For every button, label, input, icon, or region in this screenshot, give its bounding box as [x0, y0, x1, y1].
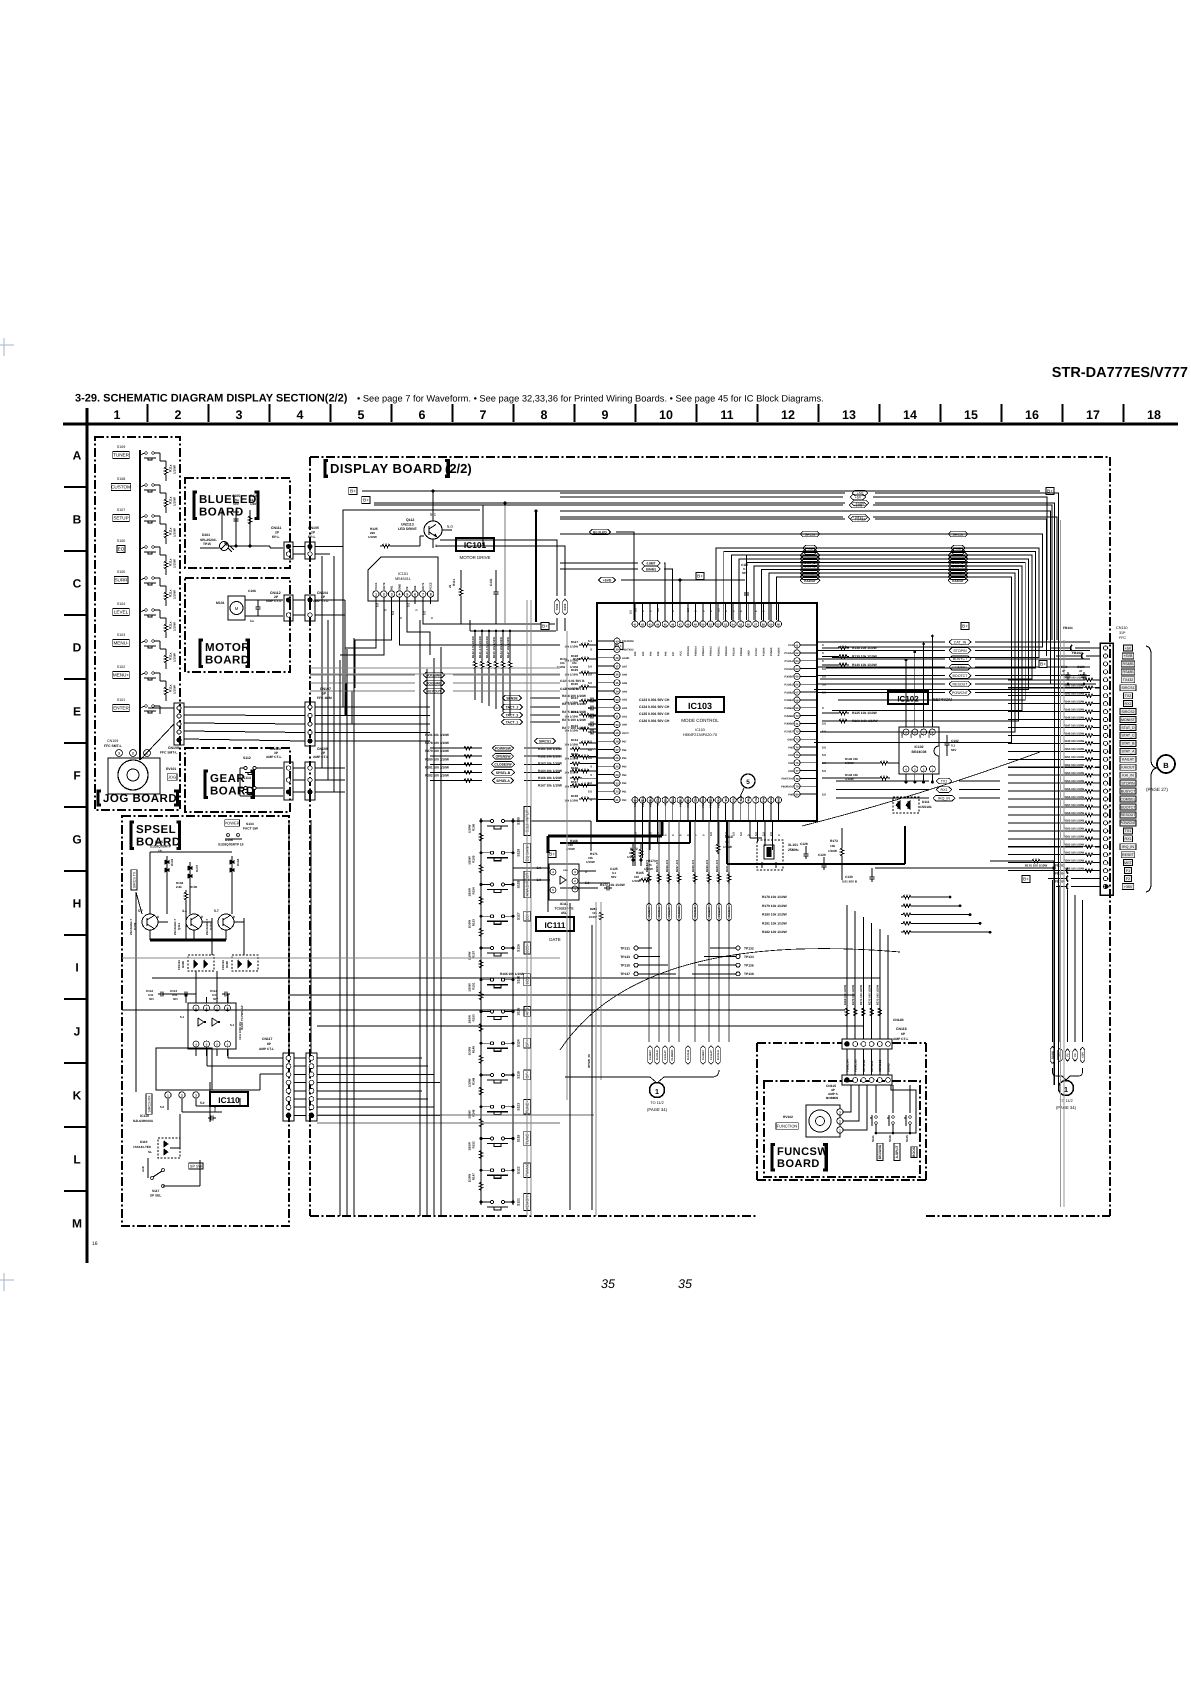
svg-text:R180 10k 1/10W: R180 10k 1/10W: [762, 913, 788, 917]
MOTOR board outline: [185, 578, 290, 672]
svg-text:2.2k: 2.2k: [176, 885, 182, 889]
svg-text:D111: D111: [922, 800, 930, 804]
svg-text:0: 0: [585, 870, 587, 874]
svg-text:1/10W: 1/10W: [468, 1110, 472, 1119]
svg-text:KAILAT: KAILAT: [1122, 758, 1135, 762]
svg-text:5.0: 5.0: [822, 745, 826, 749]
svg-text:S134: S134: [246, 822, 254, 826]
svg-text:C128: C128: [800, 842, 808, 846]
BLUELED board outline: [185, 478, 290, 568]
svg-text:7: 7: [422, 593, 424, 597]
svg-text:FL3BAT: FL3BAT: [649, 1050, 652, 1060]
net label B+ f: [1046, 488, 1054, 495]
svg-text:65: 65: [796, 676, 799, 679]
svg-text:R144 10k 1/10W: R144 10k 1/10W: [499, 637, 503, 658]
svg-text:17: 17: [1086, 408, 1100, 422]
svg-text:S124: S124: [517, 1039, 521, 1047]
svg-text:IN2: IN2: [413, 585, 417, 590]
svg-text:R242 100 1/10W: R242 100 1/10W: [1064, 685, 1085, 688]
svg-text:E: E: [73, 705, 81, 719]
svg-text:5.0: 5.0: [585, 881, 590, 885]
svg-text:TP136: TP136: [744, 964, 754, 968]
svg-text:CN11B: CN11B: [893, 1018, 904, 1022]
svg-text:P45: P45: [657, 651, 660, 656]
svg-text:BOBBIN: BOBBIN: [826, 1096, 839, 1100]
svg-text:RS485: RS485: [1123, 670, 1134, 674]
svg-text:66: 66: [796, 684, 799, 687]
callout circle B: [1157, 755, 1175, 773]
svg-text:B+: B+: [697, 574, 703, 579]
svg-text:S112: S112: [243, 756, 251, 760]
wire CN112-CN104: [293, 599, 305, 601]
svg-text:7: 7: [480, 408, 487, 422]
svg-text:+5VB: +5VB: [1124, 654, 1133, 658]
svg-text:1/10W: 1/10W: [468, 888, 472, 897]
svg-text:R274 100 1/10W: R274 100 1/10W: [562, 702, 586, 706]
svg-text:J: J: [74, 1025, 81, 1039]
svg-text:R268 100 1/10W: R268 100 1/10W: [562, 694, 586, 698]
svg-text:D105: D105: [155, 840, 163, 844]
svg-text:FL3CLK: FL3CLK: [656, 1050, 659, 1060]
svg-text:14: 14: [903, 408, 917, 422]
svg-text:IN1: IN1: [390, 585, 394, 590]
svg-text:P50/TXD0: P50/TXD0: [702, 795, 705, 807]
svg-text:P37/B7: P37/B7: [784, 731, 793, 734]
svg-text:P90/IRQ2: P90/IRQ2: [634, 795, 637, 807]
svg-text:D: D: [73, 641, 82, 655]
svg-text:P27/A15: P27/A15: [687, 646, 690, 656]
svg-text:R166 100 1/10W: R166 100 1/10W: [500, 972, 524, 976]
svg-text:C124 0.001 50V CH: C124 0.001 50V CH: [639, 705, 670, 709]
svg-text:R245 100 1/10W: R245 100 1/10W: [1064, 708, 1085, 711]
net labels JOGSW TACT: [423, 672, 444, 678]
wire top-left bus: [362, 490, 1040, 492]
wire bus CN117 to display: [317, 1057, 422, 1059]
svg-text:FB102: FB102: [1072, 651, 1082, 655]
svg-text:K: K: [73, 1089, 82, 1103]
svg-text:B+: B+: [1023, 877, 1029, 882]
eeprom IC102: [888, 691, 928, 704]
svg-text:R262 100 1/10W: R262 100 1/10W: [1064, 844, 1085, 847]
svg-text:1/10W: 1/10W: [173, 590, 177, 599]
svg-text:SL: SL: [148, 1150, 152, 1154]
svg-text:2: 2: [383, 593, 385, 597]
gray bus wires: [526, 600, 528, 1216]
svg-text:SIRCS TX: SIRCS TX: [132, 871, 136, 888]
svg-text:5.0: 5.0: [739, 832, 743, 836]
FUNCSW board outline: [764, 1081, 920, 1177]
svg-text:FACT SW: FACT SW: [243, 827, 259, 831]
svg-text:35: 35: [616, 682, 619, 685]
svg-text:5.1: 5.1: [230, 1023, 235, 1027]
svg-text:POWCNT: POWCNT: [952, 691, 969, 695]
svg-text:TX1: TX1: [941, 779, 948, 783]
svg-text:P40: P40: [634, 651, 637, 656]
svg-text:R152: R152: [472, 1141, 476, 1149]
svg-text:R153: R153: [472, 919, 476, 927]
svg-text:SPSEL: SPSEL: [136, 824, 176, 836]
svg-text:KEYASP: KEYASP: [870, 1060, 874, 1072]
svg-text:RV101: RV101: [166, 767, 176, 771]
svg-text:R275 100 1/10W: R275 100 1/10W: [562, 710, 586, 714]
svg-text:STOPIN: STOPIN: [953, 649, 967, 653]
svg-text:FL3LAT: FL3LAT: [664, 1050, 667, 1060]
svg-text:P17/A7: P17/A7: [755, 647, 758, 656]
svg-text:5.0: 5.0: [588, 790, 592, 794]
svg-text:POWCNT: POWCNT: [1120, 821, 1137, 825]
svg-text:RX1: RX1: [941, 788, 948, 792]
svg-text:+5VD: +5VD: [603, 578, 612, 582]
svg-text:R173: R173: [830, 839, 838, 843]
svg-text:R256 100 1/10W: R256 100 1/10W: [1064, 796, 1085, 799]
svg-text:62: 62: [796, 652, 799, 655]
svg-text:1/10W: 1/10W: [468, 1174, 472, 1183]
svg-text:SPSELA: SPSELA: [496, 779, 510, 783]
svg-text:FL3MOD: FL3MOD: [678, 907, 681, 918]
svg-text:16: 16: [1025, 408, 1039, 422]
svg-text:FL1LAT: FL1LAT: [710, 1050, 713, 1060]
svg-text:35: 35: [601, 1277, 615, 1291]
svg-text:B+: B+: [542, 624, 548, 629]
svg-text:AN1: AN1: [622, 715, 628, 718]
svg-text:1/10W: 1/10W: [468, 983, 472, 992]
svg-text:P91/IRQ1: P91/IRQ1: [642, 795, 645, 807]
svg-text:1/10W: 1/10W: [173, 528, 177, 537]
svg-text:FL1LAT: FL1LAT: [718, 907, 721, 917]
svg-text:P52/SCK0: P52/SCK0: [717, 795, 720, 807]
svg-text:S118: S118: [517, 1135, 521, 1143]
svg-text:R167 10k 1/10W: R167 10k 1/10W: [538, 784, 562, 788]
svg-text:EQ: EQ: [118, 547, 125, 552]
svg-text:P34/B4: P34/B4: [784, 707, 793, 710]
svg-text:69: 69: [796, 707, 799, 710]
svg-text:5.0: 5.0: [588, 681, 592, 685]
wire long horizontals: [152, 977, 880, 979]
svg-text:60: 60: [777, 623, 780, 626]
wire bundle IC103 top pins 52-60: [560, 534, 1043, 647]
svg-text:1: 1: [1064, 1085, 1068, 1094]
svg-text:33: 33: [616, 699, 619, 702]
svg-text:P31/B1: P31/B1: [784, 683, 793, 686]
svg-text:P61: P61: [622, 791, 627, 794]
svg-text:AMP CT-L: AMP CT-L: [259, 1047, 274, 1051]
svg-text:C111 1000 16V: C111 1000 16V: [239, 1021, 242, 1040]
svg-text:BLUELED: BLUELED: [199, 494, 257, 506]
svg-text:IC103: IC103: [688, 701, 712, 711]
svg-text:R280 100 1/10W: R280 100 1/10W: [425, 757, 449, 761]
svg-text:D110: D110: [140, 1140, 148, 1144]
FUNCSW board outline outer: [757, 1042, 842, 1044]
svg-text:RX1: RX1: [1125, 837, 1132, 841]
svg-text:0.01 50V B: 0.01 50V B: [842, 880, 858, 884]
svg-text:P35/B5: P35/B5: [784, 715, 793, 718]
svg-text:3: 3: [118, 752, 120, 756]
svg-text:R250 100 1/10W: R250 100 1/10W: [1064, 748, 1085, 751]
svg-text:52: 52: [717, 623, 720, 626]
svg-text:AN3: AN3: [622, 699, 628, 702]
svg-text:D108: D108: [181, 961, 185, 968]
svg-text:XTAL: XTAL: [763, 796, 766, 803]
svg-text:R179 10k 1/10W: R179 10k 1/10W: [762, 904, 788, 908]
svg-text:5.0: 5.0: [588, 664, 592, 668]
svg-text:R147 10k 1/10W: R147 10k 1/10W: [506, 637, 510, 658]
brace CN110: [1146, 646, 1156, 892]
svg-text:KAIOUT: KAIOUT: [952, 579, 964, 583]
svg-text:R240 470: R240 470: [715, 859, 719, 872]
svg-text:0: 0: [157, 915, 159, 919]
svg-text:DIG/ANA: DIG/ANA: [878, 1144, 882, 1159]
svg-text:BOARD: BOARD: [777, 1158, 820, 1170]
FL net stubs to page 34: [648, 1046, 652, 1065]
svg-text:C130: C130: [845, 875, 853, 879]
svg-text:50V: 50V: [149, 997, 154, 1001]
svg-text:5.0: 5.0: [537, 866, 542, 870]
svg-text:OUT1: OUT1: [421, 582, 425, 590]
wire CN111-CN105: [293, 546, 305, 548]
svg-text:TUNER: TUNER: [113, 453, 130, 458]
svg-text:LEVEL: LEVEL: [114, 610, 129, 615]
svg-text:R263 100 1/10W: R263 100 1/10W: [1064, 852, 1085, 855]
svg-text:TX432: TX432: [1123, 678, 1134, 682]
svg-text:25MHz: 25MHz: [788, 848, 799, 852]
svg-text:R248 100 1/10W: R248 100 1/10W: [1064, 732, 1085, 735]
svg-text:AN7: AN7: [622, 665, 628, 668]
svg-text:4: 4: [297, 408, 304, 422]
svg-text:TX2: TX2: [1125, 694, 1132, 698]
wire nets T002 K002: [440, 540, 557, 596]
svg-text:43: 43: [649, 623, 652, 626]
resistors R145 R143: [878, 761, 890, 764]
svg-text:64: 64: [796, 668, 799, 671]
svg-text:IC102: IC102: [897, 695, 919, 704]
svg-text:AN5: AN5: [622, 682, 628, 685]
svg-text:S121: S121: [517, 1198, 521, 1206]
svg-text:80: 80: [796, 793, 799, 796]
svg-text:DISPLAY BOARD: DISPLAY BOARD: [330, 461, 443, 476]
svg-text:2: 2: [175, 408, 182, 422]
svg-text:R178 10k 1/10W: R178 10k 1/10W: [762, 895, 788, 899]
svg-text:KAIOUT: KAIOUT: [1121, 766, 1135, 770]
svg-text:TC9322F-TE: TC9322F-TE: [554, 907, 574, 911]
svg-text:P30/B0: P30/B0: [784, 676, 793, 679]
svg-text:IC102: IC102: [914, 745, 923, 749]
svg-text:R243 100 1/10W: R243 100 1/10W: [1064, 693, 1085, 696]
resistor R175: [1030, 859, 1042, 862]
svg-text:R272 100 1/10W: R272 100 1/10W: [868, 984, 871, 1005]
svg-text:76: 76: [796, 762, 799, 765]
svg-text:SIRCS1: SIRCS1: [1122, 686, 1135, 690]
svg-text:AVCC: AVCC: [622, 732, 629, 735]
svg-text:S114: S114: [243, 776, 251, 780]
svg-text:POWER: POWER: [224, 820, 239, 825]
svg-text:CN117: CN117: [262, 1037, 272, 1041]
svg-text:S117: S117: [152, 1189, 159, 1193]
svg-text:37: 37: [616, 665, 619, 668]
svg-text:MOTOR: MOTOR: [205, 642, 250, 654]
svg-text:1/10W: 1/10W: [586, 860, 595, 864]
svg-text:P21/A9: P21/A9: [732, 647, 735, 656]
svg-text:1/10W: 1/10W: [173, 622, 177, 631]
svg-text:TO 11/2: TO 11/2: [1059, 1099, 1072, 1103]
svg-text:R247 100 1/10W: R247 100 1/10W: [1064, 724, 1085, 727]
net label B+ c: [541, 623, 549, 630]
svg-text:41: 41: [634, 623, 637, 626]
svg-text:5.0: 5.0: [200, 1101, 205, 1105]
svg-text:15: 15: [964, 408, 978, 422]
svg-text:SCL: SCL: [910, 733, 913, 738]
svg-text:1/10W: 1/10W: [468, 1142, 472, 1151]
BLUELED board label: [194, 492, 197, 518]
svg-text:1/10W: 1/10W: [468, 951, 472, 960]
JOG board label: [98, 791, 101, 805]
svg-text:FFC: FFC: [1119, 636, 1126, 640]
MOTOR board label: [200, 640, 203, 666]
svg-text:KEYBO3: KEYBO3: [878, 1059, 882, 1072]
svg-text:FB101: FB101: [1063, 626, 1073, 630]
svg-text:CLOSESW: CLOSESW: [494, 763, 512, 767]
svg-text:M: M: [235, 606, 239, 611]
svg-text:ENTER: ENTER: [113, 706, 129, 711]
svg-text:SIRCS2: SIRCS2: [1122, 710, 1135, 714]
svg-text:CN110: CN110: [1116, 626, 1128, 630]
svg-text:P33/B3: P33/B3: [784, 699, 793, 702]
svg-text:50V: 50V: [173, 997, 178, 1001]
svg-text:FL1BAT: FL1BAT: [702, 1050, 705, 1060]
svg-text:BOOTCT: BOOTCT: [953, 674, 969, 678]
svg-text:R249 100 1/10W: R249 100 1/10W: [1064, 740, 1085, 743]
svg-text:C: C: [73, 577, 82, 591]
svg-text:BOOTCT: BOOTCT: [1121, 805, 1137, 809]
FUNCSW board label: [772, 1145, 775, 1170]
svg-text:FB105: FB105: [1055, 880, 1065, 884]
svg-text:IC110: IC110: [140, 1114, 149, 1118]
svg-text:I: I: [75, 961, 78, 975]
svg-text:BLULED: BLULED: [593, 530, 607, 534]
svg-text:STOPIN: STOPIN: [1121, 781, 1135, 785]
svg-text:P25/A13: P25/A13: [702, 646, 705, 656]
svg-text:TP138: TP138: [744, 972, 754, 976]
svg-text:56: 56: [747, 623, 750, 626]
svg-text:D101: D101: [202, 533, 210, 537]
svg-text:1/10W: 1/10W: [468, 824, 472, 833]
wire verticals mid-right: [547, 858, 549, 912]
svg-text:P42/TXD2: P42/TXD2: [622, 649, 634, 652]
svg-text:Q111: Q111: [177, 923, 181, 930]
svg-text:S108: S108: [117, 477, 125, 481]
svg-text:RESOUT: RESOUT: [953, 682, 969, 686]
svg-text:RESET: RESET: [1122, 853, 1135, 857]
svg-text:R265 100 1/10W: R265 100 1/10W: [1064, 867, 1085, 870]
svg-text:C123 0.001 50V CH: C123 0.001 50V CH: [639, 698, 670, 702]
keypad switches S101-S109: [139, 450, 141, 760]
svg-text:R111: R111: [452, 579, 456, 586]
svg-text:R258 100 1/10W: R258 100 1/10W: [1064, 812, 1085, 815]
svg-text:STAT_D: STAT_D: [1121, 726, 1135, 730]
corner marks: [0, 344, 14, 346]
svg-text:R150: R150: [472, 1014, 476, 1022]
svg-text:R238 470: R238 470: [691, 859, 695, 872]
svg-text:R271 100 1/10W: R271 100 1/10W: [860, 984, 863, 1005]
svg-text:S120: S120: [517, 976, 521, 984]
svg-text:R105 10k 1/10W: R105 10k 1/10W: [492, 637, 496, 658]
resistor group R141-R147: [473, 659, 476, 671]
svg-text:85L: 85L: [561, 911, 567, 915]
svg-text:P11/A1: P11/A1: [784, 660, 793, 663]
wire CN107 to JOGSW nets: [315, 675, 415, 707]
svg-text:R282 100 1/10W: R282 100 1/10W: [425, 774, 449, 778]
wire IC111 connections: [513, 867, 543, 869]
svg-text:IC110: IC110: [218, 1096, 240, 1105]
net label B+ h: [548, 851, 556, 858]
svg-text:F2: F2: [1126, 877, 1130, 881]
svg-text:VCC: VCC: [725, 796, 728, 801]
SPSEL board outline: [122, 816, 289, 1226]
svg-text:R255 100 1/10W: R255 100 1/10W: [1064, 788, 1085, 791]
wire rails +5V +5VB TX432: [560, 496, 843, 498]
svg-text:71: 71: [796, 723, 799, 726]
svg-text:29: 29: [616, 732, 619, 735]
svg-text:GND: GND: [397, 584, 401, 590]
svg-text:P44: P44: [649, 651, 652, 656]
svg-text:1u: 1u: [250, 619, 254, 623]
svg-text:68: 68: [796, 699, 799, 702]
svg-text:R155: R155: [472, 855, 476, 863]
svg-text:27: 27: [616, 749, 619, 752]
SPSEL board label: [131, 822, 134, 848]
svg-text:R105: R105: [190, 885, 198, 889]
svg-text:• See page 7 for Waveform. •: • See page 7 for Waveform. • See page 32…: [357, 394, 824, 404]
svg-text:1SS181: 1SS181: [221, 960, 225, 970]
svg-text:39: 39: [616, 649, 619, 652]
svg-text:TP135: TP135: [620, 964, 630, 968]
svg-text:OUT2: OUT2: [382, 582, 386, 590]
svg-text:B+: B+: [549, 852, 555, 857]
curved wire b: [560, 949, 900, 1050]
svg-text:COMSEL: COMSEL: [952, 666, 967, 670]
svg-text:T002: T002: [555, 603, 559, 610]
svg-text:FUNCSA: FUNCSA: [845, 1059, 849, 1072]
svg-text:R181 10k 1/10W: R181 10k 1/10W: [762, 921, 788, 925]
svg-text:+35V: +35V: [1082, 1052, 1085, 1058]
microcontroller IC103: [597, 603, 817, 821]
svg-text:R261 100 1/10W: R261 100 1/10W: [1064, 836, 1085, 839]
svg-text:1SS181-TE8: 1SS181-TE8: [133, 1145, 151, 1149]
svg-text:S115: S115: [905, 1135, 909, 1142]
svg-text:R257 100 1/10W: R257 100 1/10W: [1064, 804, 1085, 807]
svg-text:CAT_IN: CAT_IN: [954, 640, 967, 644]
svg-text:STAT_A: STAT_A: [1121, 750, 1135, 754]
svg-text:5.0: 5.0: [537, 878, 542, 882]
svg-text:R182 10k 1/10W: R182 10k 1/10W: [762, 930, 788, 934]
svg-text:50V: 50V: [611, 875, 616, 879]
svg-text:4: 4: [399, 593, 401, 597]
svg-text:MENU-: MENU-: [113, 641, 129, 646]
svg-text:AMP CT-L: AMP CT-L: [313, 755, 329, 759]
svg-text:FL3CLK: FL3CLK: [658, 907, 661, 917]
svg-text:F: F: [73, 769, 80, 783]
svg-text:1: 1: [114, 408, 121, 422]
svg-text:VCC2: VCC2: [429, 582, 433, 590]
net label B+ e: [961, 623, 969, 630]
svg-text:FL1CLB: FL1CLB: [687, 1050, 690, 1060]
SPSEL internal wires: [166, 856, 168, 914]
svg-text:R279 100 1/10W: R279 100 1/10W: [425, 749, 449, 753]
svg-text:R253 100 1/10W: R253 100 1/10W: [1064, 772, 1085, 775]
svg-text:B+: B+: [1040, 662, 1046, 667]
svg-text:5.0: 5.0: [822, 722, 826, 726]
svg-text:8: 8: [541, 408, 548, 422]
connector CN111: [284, 542, 293, 559]
